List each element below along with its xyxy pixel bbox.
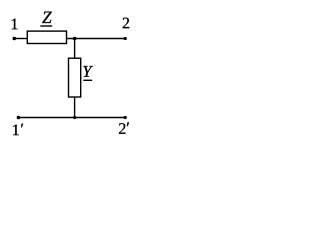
label 1' digit 1 xyxy=(13,125,19,136)
junction dot top xyxy=(73,37,77,41)
bottom wire node 1' to node 2' xyxy=(19,117,126,119)
label 2' digit 2 xyxy=(119,123,125,134)
Y underline xyxy=(83,79,92,81)
admittance Y box xyxy=(69,58,81,97)
impedance Z box xyxy=(27,31,66,43)
label 2 xyxy=(123,18,129,29)
node 2 terminal dot xyxy=(124,37,127,40)
wire Z box to node 2 xyxy=(67,38,126,40)
label 2' prime xyxy=(127,122,129,126)
Z underline xyxy=(40,25,52,27)
node 1 terminal dot xyxy=(13,37,17,41)
wire node1 to Z box xyxy=(14,38,27,40)
label 1' prime xyxy=(21,124,23,128)
label Z xyxy=(42,12,52,23)
label 1 xyxy=(12,19,18,30)
wire Y box to bottom rail xyxy=(74,97,76,118)
junction dot bottom xyxy=(73,116,76,119)
label Y xyxy=(83,66,93,77)
node 2' terminal dot xyxy=(124,116,127,119)
node 1' terminal dot xyxy=(17,116,21,120)
wire junction to Y box xyxy=(74,39,76,59)
